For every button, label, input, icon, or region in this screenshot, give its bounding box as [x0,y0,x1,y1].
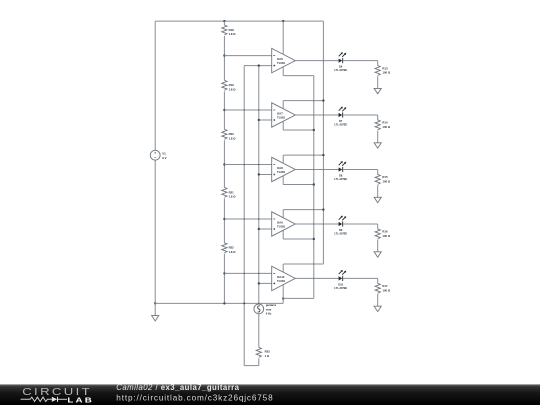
svg-text:LTL-307EE: LTL-307EE [334,178,347,181]
svg-text:TL081: TL081 [277,61,286,65]
svg-text:1.8 Ω: 1.8 Ω [229,136,237,140]
svg-text:TL081: TL081 [277,279,286,283]
op-amp OA9 TL081 [272,212,296,236]
wire crossing (bus B / ground rail) [258,303,260,305]
wire crossing (V+ bus / stage 2 output) [323,114,325,116]
wire crossing (V- bus / stage 2 V+ wire) [313,100,315,102]
wire crossing (V+ bus / stage 3 output) [323,169,325,171]
node: rail-ladder junction [223,20,225,22]
resistor R23 1 Ohm [256,347,261,357]
node: bus A / ground rail visual crossing [243,302,245,304]
svg-text:100 Ω: 100 Ω [382,234,390,238]
wire: R13 to ground [377,76,379,88]
resistor R21 1.8 Ohm (ladder) [221,187,227,198]
wire: reference ladder (vertical) [223,21,225,303]
wire crossing (V- bus / stage 4 output) [313,223,315,225]
op-amp OA10 TL081 [272,266,296,290]
wire: R15 to ground [377,185,379,197]
wire: LED to R13 [343,60,378,62]
wire crossing (V- bus / stage 5 output) [313,278,315,280]
svg-text:TL081: TL081 [277,170,286,174]
node: V+ bus tap OA7 [322,99,324,101]
wire: stage 5 + input wire [259,282,272,284]
LED D7 LTL-307EE [339,113,343,117]
wire crossing (V+ bus / stage 1 output) [323,60,325,62]
resistor R13 100 Ohm [375,66,380,76]
svg-text:100 Ω: 100 Ω [382,125,390,129]
wire crossing (V- bus / stage 2 output) [313,114,315,116]
LED D8 LTL-307EE [339,167,343,171]
LED D9 LTL-307EE [339,222,343,226]
wire: LED to R17 [343,277,378,279]
node: V- bus tap OA7 [313,129,315,131]
wire: R23 bottom lead [258,358,260,365]
wire: OA6 V- stub [282,67,284,76]
svg-text:100 Ω: 100 Ω [382,179,390,183]
node: V- bus tap OA8 [313,183,315,185]
wire crossing (bus A / stage 4 - wire) [243,218,245,220]
svg-text:LTL-307EE: LTL-307EE [334,233,347,236]
resistor R17 100 Ohm [375,283,380,293]
node: rail-OA6 V+ junction [282,20,284,22]
svg-text:TL081: TL081 [277,225,286,229]
resistor R16 100 Ohm [375,229,380,239]
resistor R15 100 Ohm [375,174,380,184]
node: bus B tap stage 4 [258,228,260,230]
wire: OA8 V- stub [282,176,284,185]
wire: LED to R15 [343,169,378,171]
node: ladder tap 5 [223,272,225,274]
svg-text:100 Ω: 100 Ω [382,288,390,292]
node: V- bus tap OA9 [313,238,315,240]
op-amp OA6 TL081 [272,48,296,72]
node: bus B tap stage 5 [258,282,260,284]
wire: OA6 V+ stub to rail [282,21,284,54]
ground (stage 4) [374,252,381,257]
svg-text:LTL-307EE: LTL-307EE [334,124,347,127]
node: bus B tap stage 2 [258,119,260,121]
node: OA10 V- junction [282,297,284,299]
resistor R19 1.8 Ohm (ladder) [221,80,227,91]
LED D10 emission arrows [339,271,346,275]
svg-text:LTL-307EE: LTL-307EE [334,287,347,290]
wire: stage 3 + input wire [259,174,272,176]
wire: tap 2 to op-amp inverting input [224,109,271,111]
svg-text:Camila02 / ex3_aula7_guitarra: Camila02 / ex3_aula7_guitarra [116,383,239,392]
ground (stage 2) [374,143,381,148]
LED D6 LTL-307EE [339,59,343,63]
wire: down to R13 [377,61,379,66]
wire: to V- bus [283,297,314,299]
svg-text:TL081: TL081 [277,116,286,120]
svg-text:100 Ω: 100 Ω [382,71,390,75]
wire: signal bus B (to + inputs) [258,66,260,304]
wire: stub to ground symbol [154,303,156,315]
LED D9 emission arrows [339,216,346,220]
ground (stage 3) [374,197,381,202]
node: ladder tap 2 [223,109,225,111]
wire: down to R16 [377,224,379,229]
wire: OA9 V+ stub [282,210,284,218]
svg-text:1.8 Ω: 1.8 Ω [229,195,237,199]
voltage source V1 9V [150,150,160,160]
wire: down to R14 [377,115,379,120]
LED D7 emission arrows [339,107,346,111]
wire: tap 3 to op-amp inverting input [224,164,271,166]
wire crossing (V+ bus / stage 4 output) [323,223,325,225]
wire: LED to R16 [343,223,378,225]
svg-text:0 Hz: 0 Hz [266,312,272,316]
node: V1-ground junction [154,302,156,304]
node: ladder tap 4 [223,218,225,220]
wire: bus A bottom link to R23 [244,365,259,367]
wire: bottom ground rail [155,302,283,304]
wire: top supply rail [155,20,323,22]
wire: OA10 output [295,277,338,279]
ground (left, battery) [152,316,159,321]
wire crossing (bus B / stage 2 - wire) [258,109,260,111]
wire: OA8 V+ stub [282,155,284,163]
wire: down to R15 [377,170,379,175]
node: ladder tap 3 [223,163,225,165]
wire: OA8 output [295,169,338,171]
resistor R22 1.8 Ohm (ladder) [221,243,227,254]
wire: OA7 V+ stub [282,101,284,109]
wire crossing (V- bus / stage 3 output) [313,169,315,171]
wire: R14 to ground [377,131,379,143]
wire: V+ supply bus (vertical) [322,21,324,264]
ground (stage 1) [374,88,381,93]
op-amp OA7 TL081 [272,103,296,127]
wire crossing (bus B / stage 4 - wire) [258,218,260,220]
wire: tap 1 to op-amp inverting input [224,55,271,57]
svg-text:1.8 Ω: 1.8 Ω [229,250,237,254]
resistor R14 100 Ohm [375,120,380,130]
wire: OA6 output [295,60,338,62]
wire: signal bus A (outer loop) [243,66,245,366]
wire: OA9 output [295,223,338,225]
wire: OA6 + input wire [244,65,272,67]
svg-text:1.8 Ω: 1.8 Ω [229,32,237,36]
wire: stage 4 + input wire [259,228,272,230]
svg-text:D10: D10 [338,283,343,286]
wire crossing (V- bus / stage 3 V+ wire) [313,154,315,156]
svg-text:1 Ω: 1 Ω [265,354,270,358]
node: ladder tap 1 [223,54,225,56]
wire: down to R17 [377,278,379,283]
wire crossing (bus A / stage 2 - wire) [243,109,245,111]
node: ladder bottom junction [223,302,225,304]
ground (stage 5) [374,306,381,311]
wire: OA10 V+ stub [282,264,284,272]
svg-text:9 V: 9 V [162,156,166,160]
wire crossing (bus A / stage 5 - wire) [243,273,245,275]
wire: V- supply bus (vertical) [313,76,315,299]
wire: OA7 output [295,114,338,116]
wire crossing (bus B / stage 5 - wire) [258,273,260,275]
wire: ground rail up-link at right end [282,298,284,303]
node: bus B tap stage 3 [258,173,260,175]
node: V+ bus tap OA8 [322,154,324,156]
wire: OA9 V- stub [282,230,284,239]
op-amp OA8 TL081 [272,157,296,181]
wire: left vertical from rail to V1 [154,21,156,150]
wire crossing (V- bus / stage 5 V+ wire) [313,263,315,265]
LED D6 emission arrows [339,53,346,57]
node: bus B top junction [258,64,260,66]
wire: tap 5 to op-amp inverting input [224,272,271,274]
wire: R16 to ground [377,240,379,252]
footer bar [0,384,540,405]
wire: LED to R14 [343,114,378,116]
wire crossing (bus A / stage 3 - wire) [243,164,245,166]
wire crossing (V- bus / stage 4 V+ wire) [313,209,315,211]
CircuitLab logo: resistor-diode squiggle [21,397,52,401]
wire: R17 to ground [377,294,379,306]
wire: OA10 V- stub [282,285,284,299]
svg-text:1.8 Ω: 1.8 Ω [229,87,237,91]
svg-text:http://circuitlab.com/c3kz26qj: http://circuitlab.com/c3kz26qjc6758 [116,393,273,402]
resistor R18 1.8 Ohm (ladder) [221,25,227,36]
resistor R20 1.8 Ohm (ladder) [221,129,227,140]
svg-text:LTL-307EE: LTL-307EE [334,69,347,72]
wire: OA7 V- stub [282,121,284,130]
svg-text:LAB: LAB [67,395,94,404]
wire: stage 2 + input wire [259,119,272,121]
wire: V1 bottom to ground rail [154,160,156,303]
wire: tap 4 to op-amp inverting input [224,218,271,220]
wire crossing (bus B / stage 3 - wire) [258,164,260,166]
signal source guitarra (sine) [254,304,264,314]
wire: guitarra to R23 [258,314,260,348]
node: V+ bus tap OA9 [322,208,324,210]
LED D10 LTL-307EE [339,276,343,280]
LED D8 emission arrows [339,162,346,166]
